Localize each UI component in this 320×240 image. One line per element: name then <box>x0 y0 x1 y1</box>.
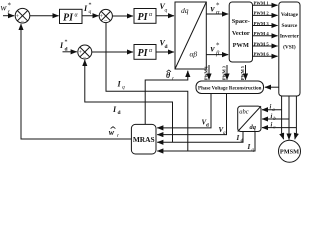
wire J2 to PI2 <box>112 15 133 17</box>
wire v_alpha* to SVPWM, node v_alpha* label <box>206 13 228 15</box>
node Id* label <box>59 40 68 53</box>
wire current i_b tap, node i_b label <box>262 118 289 120</box>
wire PI1 to J2, node Iq* label <box>82 15 99 17</box>
transform block dq to alpha-beta <box>175 2 206 69</box>
svg-text:PWM 4: PWM 4 <box>254 31 270 36</box>
wire current i_c tap, node i_c label <box>262 127 296 129</box>
svg-text:w: w <box>1 3 7 13</box>
wire J1 to PI1 <box>30 15 59 17</box>
wire theta_r from MRAS to dq block, node theta_r label <box>145 71 188 125</box>
wire VSI to Phase Voltage Reconstruction <box>265 86 279 88</box>
wire Id feedback to J3, node Id label <box>85 60 173 142</box>
svg-text:dq: dq <box>181 6 189 15</box>
svg-text:i: i <box>271 113 273 120</box>
svg-text:PWM 6: PWM 6 <box>254 52 270 57</box>
svg-text:*: * <box>89 3 92 9</box>
svg-text:PI: PI <box>138 12 149 23</box>
svg-text:MRAS: MRAS <box>133 135 155 144</box>
svg-text:Space-: Space- <box>232 18 250 25</box>
PI controller PI3 <box>134 45 156 60</box>
summing junction J3 <box>78 45 92 61</box>
Space-Vector PWM block <box>229 2 252 62</box>
svg-text:PWM 3: PWM 3 <box>221 66 226 80</box>
wire phase a from VSI to PMSM <box>282 96 284 133</box>
svg-text:dq: dq <box>250 124 257 131</box>
svg-text:I: I <box>236 134 240 142</box>
svg-text:Inverter: Inverter <box>280 34 300 40</box>
wire Id from abc-dq to MRAS, node Id label <box>157 132 243 143</box>
transform block abc to dq <box>238 106 261 131</box>
wire Vq from PVR to MRAS, node Vq label <box>157 94 226 135</box>
svg-text:PWM 1: PWM 1 <box>203 66 208 80</box>
svg-text:i: i <box>271 121 273 128</box>
MRAS observer block <box>131 124 156 154</box>
wire Vd from PVR to MRAS, node Vd label <box>157 94 211 128</box>
svg-text:i: i <box>270 104 272 111</box>
wire PI2 to dq block, node Vq label <box>156 15 174 17</box>
svg-text:Vector: Vector <box>232 30 250 37</box>
wire phase c from VSI to PMSM <box>295 96 297 133</box>
node w_r* label <box>1 2 12 16</box>
svg-text:αβ: αβ <box>190 50 198 59</box>
svg-text:q: q <box>165 8 168 14</box>
wire J3 to PI3 <box>92 51 133 53</box>
PI controller PI1 <box>60 9 83 23</box>
svg-text:d: d <box>241 139 244 144</box>
svg-text:Source: Source <box>282 23 298 29</box>
svg-text:*: * <box>65 40 68 46</box>
svg-text:d: d <box>165 44 168 50</box>
svg-text:d: d <box>118 110 121 116</box>
summing junction J2 <box>99 9 112 24</box>
wire PWM5 signal into PVR with rotated label <box>240 65 246 80</box>
wire phase b from VSI to PMSM <box>288 96 290 140</box>
svg-text:PMSM: PMSM <box>280 149 299 156</box>
wire omega_r feedback from MRAS to J1, node omega_r label <box>21 24 131 139</box>
Voltage Source Inverter block <box>279 2 300 96</box>
svg-text:Voltage: Voltage <box>281 12 299 18</box>
wire PWM3 signal into PVR with rotated label <box>221 65 227 80</box>
svg-text:+: + <box>16 14 20 20</box>
svg-text:Phase Voltage Reconstruction: Phase Voltage Reconstruction <box>198 87 262 92</box>
svg-text:q: q <box>122 85 125 91</box>
wire Iq from abc-dq to MRAS, node Iq label <box>157 132 255 152</box>
wires PWM1-PWM6 to VSI with labels <box>253 1 278 57</box>
svg-text:I: I <box>247 143 251 151</box>
wire PWM1 signal into PVR with rotated label <box>203 65 209 80</box>
PI controller PI2 <box>134 9 156 24</box>
wire PI3 to dq block, node Vd label <box>156 51 174 53</box>
svg-text:α: α <box>216 9 220 16</box>
svg-text:PWM 5: PWM 5 <box>254 41 270 46</box>
svg-text:q: q <box>89 9 92 15</box>
svg-text:PI: PI <box>138 48 149 59</box>
wire Iq feedback to J2, node Iq label <box>106 23 188 151</box>
wire Id* input <box>63 51 77 53</box>
svg-text:w: w <box>109 128 115 137</box>
svg-text:PWM 1: PWM 1 <box>254 1 270 6</box>
svg-text:*: * <box>216 42 220 50</box>
wire w_r* input <box>3 15 14 17</box>
Phase Voltage Reconstruction block <box>196 81 264 94</box>
svg-text:d: d <box>206 124 209 129</box>
summing junction J1 <box>15 8 30 25</box>
svg-text:PWM 2: PWM 2 <box>254 11 270 16</box>
svg-text:*: * <box>8 2 12 10</box>
svg-text:PWM 5: PWM 5 <box>240 66 245 80</box>
svg-text:PWM: PWM <box>233 42 249 49</box>
svg-text:PI: PI <box>63 13 74 24</box>
svg-text:(VSI): (VSI) <box>283 43 296 50</box>
svg-text:abc: abc <box>239 109 249 116</box>
PMSM machine <box>279 140 301 162</box>
svg-text:PWM 3: PWM 3 <box>254 21 270 26</box>
wire v_beta* to SVPWM, node v_beta* label <box>206 54 228 56</box>
wire current i_a tap, node i_a label <box>262 109 282 111</box>
